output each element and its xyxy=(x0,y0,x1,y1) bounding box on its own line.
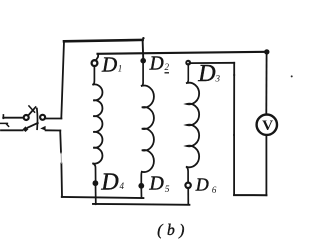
switch S: lower blade xyxy=(28,123,38,128)
svg-text:D: D xyxy=(148,173,164,195)
wire: bottom line A (left branch to D5) xyxy=(62,197,144,198)
svg-text:D: D xyxy=(149,54,164,75)
svg-text:D: D xyxy=(101,52,117,76)
svg-text:(b): (b) xyxy=(157,222,189,239)
svg-text:4: 4 xyxy=(120,181,125,191)
inductor winding 3 (D3-D6) coil xyxy=(187,83,199,168)
wire: D4 stem down through line A to line B xyxy=(95,185,97,204)
wire: rail T2 (D1/D2 top bus to voltmeter junction) xyxy=(98,52,267,54)
wire: D2 stem into coil 2 xyxy=(142,64,143,86)
wire: winding 3 right vertical xyxy=(233,63,235,75)
switch S: lower right contact (jaw wedge) xyxy=(40,126,45,131)
switch S: upper left contact (ring) xyxy=(24,115,29,120)
switch S: upper lead end tick xyxy=(2,115,4,118)
wire: voltmeter loop bottom xyxy=(234,194,266,196)
switch S: upper blade handle stroke xyxy=(29,106,35,112)
switch S: lower left contact (solid diamond) xyxy=(23,126,29,132)
wire: coil 1 bottom stem to terminal D4 xyxy=(93,164,95,181)
wire: winding 3 top rail from D3 to right vertical xyxy=(191,62,234,64)
wire: top rail T1 xyxy=(64,40,143,41)
svg-text:3: 3 xyxy=(215,73,221,83)
junction tick above T1/D2 corner xyxy=(142,37,144,39)
wire: switch upper output to left vertical xyxy=(45,118,61,120)
wire: D6 stem down to line B xyxy=(187,188,189,204)
switch S: tie bar xyxy=(36,109,39,130)
wire: voltmeter lower lead xyxy=(265,135,267,195)
terminal D1 (ring) xyxy=(92,60,98,66)
voltmeter V (meter circle) xyxy=(257,115,277,135)
svg-text:D: D xyxy=(100,170,118,196)
terminal D6 (ring) xyxy=(185,183,190,188)
speck artifact xyxy=(291,75,293,77)
svg-text:D: D xyxy=(195,175,209,195)
wire: left lower vertical (switch to line A) xyxy=(60,131,62,197)
svg-text:5: 5 xyxy=(165,185,170,195)
terminal D2 (solid dot) xyxy=(140,58,146,64)
label D2 subscript underline artifact xyxy=(165,72,170,74)
wire: coil 2 bottom stem to terminal D5 xyxy=(140,172,143,183)
junction: T2 to voltmeter branch xyxy=(264,49,269,54)
switch S: upper blade xyxy=(28,107,35,115)
wire: D3 stem into coil 3 xyxy=(187,66,189,84)
wire: bottom line B (D4 to D6) xyxy=(93,203,189,206)
switch S: lower pole lead-in xyxy=(1,129,23,131)
switch S: upper pole lead-in xyxy=(3,117,23,119)
wire: T2 left corner down to terminal D1 xyxy=(96,54,98,60)
terminal D3 (dot with pinhole) xyxy=(185,60,191,66)
svg-text:2: 2 xyxy=(165,62,170,72)
inductor winding 2 (D2-D5) coil xyxy=(142,86,154,173)
wire: D5 stem down to line A xyxy=(140,188,142,198)
wire: voltmeter upper lead xyxy=(265,52,267,114)
wire: left upper vertical (switch to T1) xyxy=(61,41,64,118)
svg-text:1: 1 xyxy=(118,64,123,74)
wire: T1 drop at x=143 down to terminal D2 xyxy=(142,40,145,58)
wire: switch lower output to left lower vertical xyxy=(46,129,61,131)
svg-text:D: D xyxy=(197,61,215,87)
svg-text:V: V xyxy=(262,117,273,134)
terminal D4 (solid dot) xyxy=(93,180,99,186)
inductor winding 1 (D1-D4) coil xyxy=(93,84,102,163)
switch S: upper right contact (ring) xyxy=(40,115,45,120)
switch S: mid stub lead xyxy=(0,123,9,126)
wire: D1 stem into coil 1 xyxy=(93,66,94,84)
wire: coil 3 bottom stem to terminal D6 xyxy=(187,167,188,182)
terminal D5 (solid dot) xyxy=(138,183,144,189)
svg-text:6: 6 xyxy=(212,185,217,195)
